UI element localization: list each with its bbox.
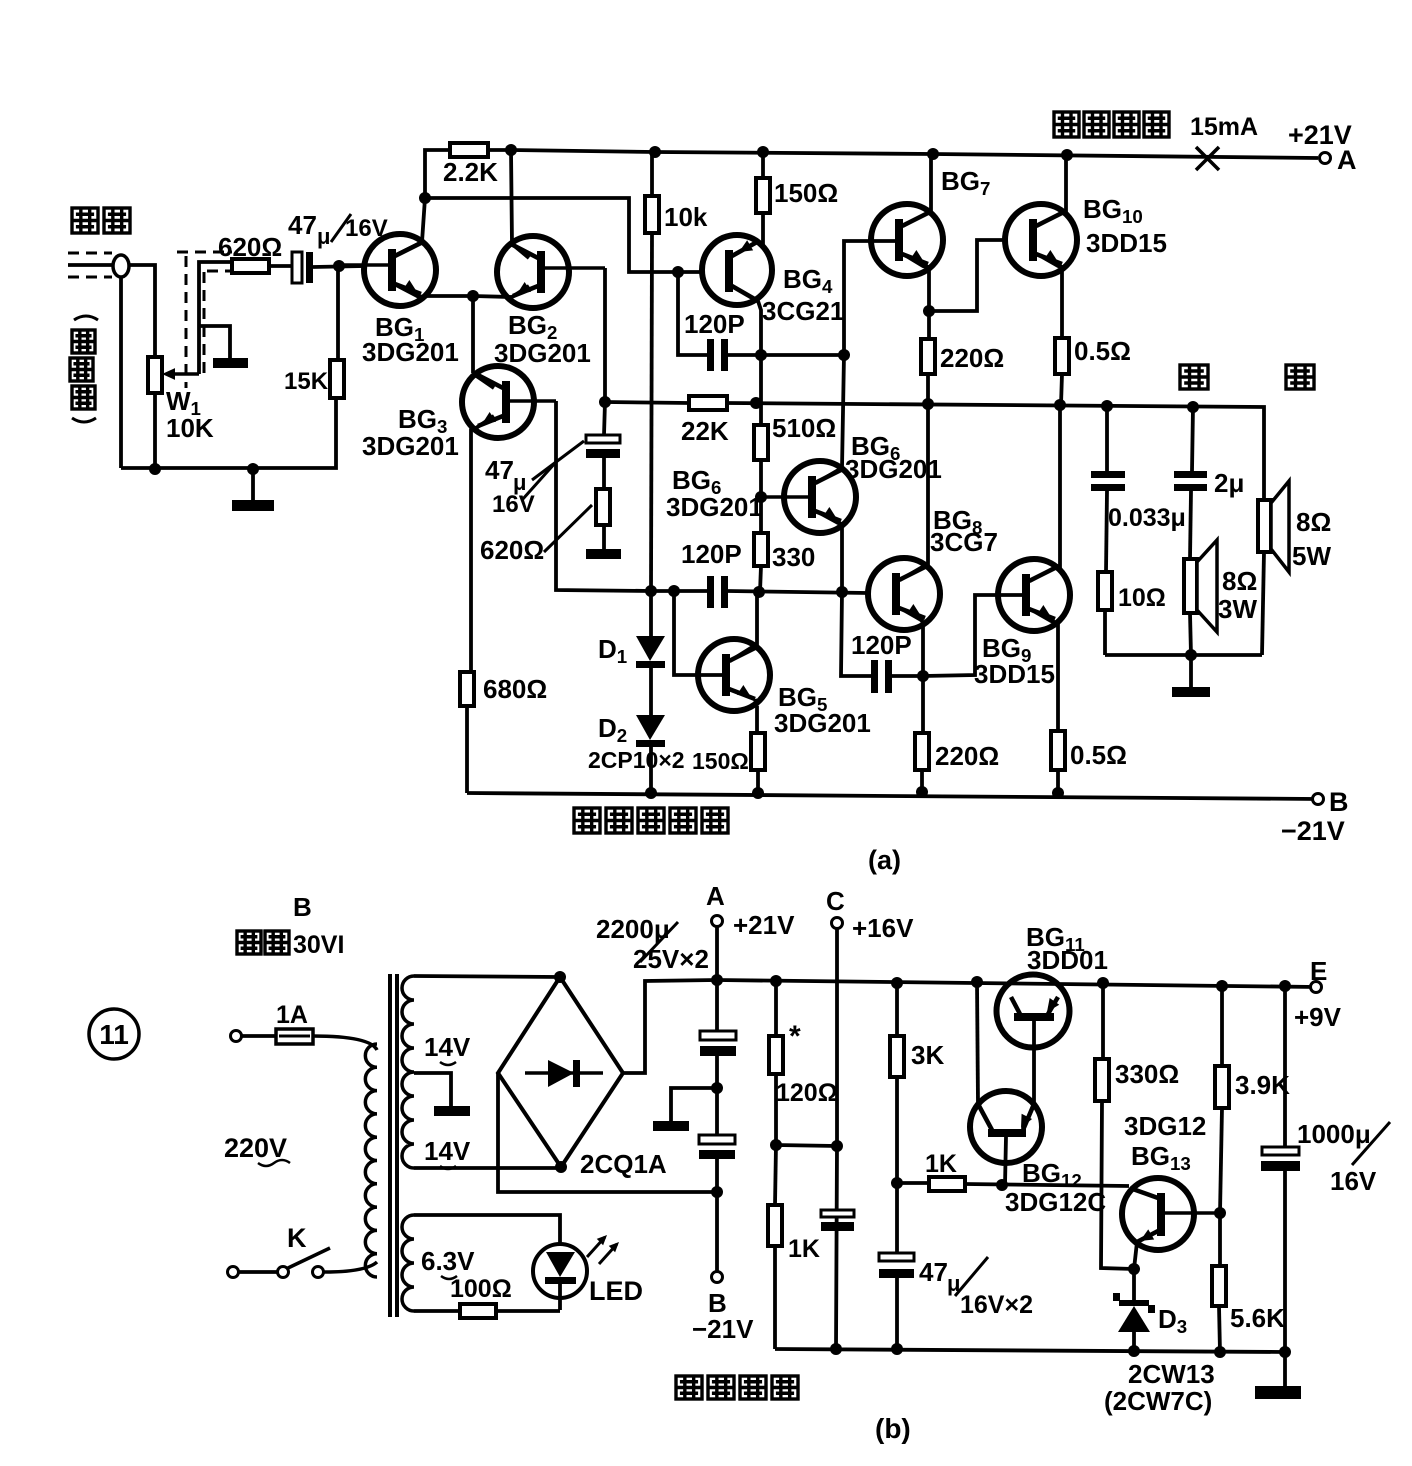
resistor 15K (336, 266, 340, 360)
transistor BG4 3CG21 (PNP) (702, 235, 772, 305)
svg-text:8Ω: 8Ω (1296, 507, 1331, 537)
resistor 330 (759, 460, 763, 533)
diode D2 2CP10 (649, 668, 653, 715)
transformer core (388, 974, 392, 1317)
BG10 collector to +21V rail (1037, 155, 1066, 226)
label 静电电流 15mA (1054, 112, 1079, 137)
BG6 collector wire (to BG7 base node) (816, 355, 844, 483)
svg-text:330Ω: 330Ω (1115, 1059, 1179, 1089)
svg-text:16V×2: 16V×2 (960, 1291, 1033, 1319)
svg-text:−21V: −21V (692, 1314, 754, 1344)
potentiometer W1 (148, 357, 162, 393)
C line down (836, 929, 837, 1349)
speaker bottom wire (1262, 552, 1264, 655)
resistor 150 ohm (BG4 emitter) (761, 152, 765, 178)
svg-text:16V: 16V (1330, 1166, 1377, 1196)
svg-text:30VI: 30VI (293, 931, 344, 959)
svg-text:3DG12C: 3DG12C (1005, 1187, 1106, 1217)
transistor BG2 3DG201 (497, 236, 569, 308)
svg-text:1A: 1A (276, 1001, 308, 1029)
svg-text:150Ω: 150Ω (692, 748, 749, 774)
svg-text:25V×2: 25V×2 (633, 944, 709, 974)
svg-text:14V: 14V (424, 1136, 471, 1166)
wire to lower 120P (841, 592, 871, 676)
label 稳压电源 (676, 1376, 702, 1399)
resistor 10k (650, 152, 654, 196)
bottom wire of input stage (121, 398, 336, 468)
svg-text:22K: 22K (681, 416, 729, 446)
svg-text:15mA: 15mA (1190, 113, 1258, 141)
transistor BG1 3DG201 (364, 234, 436, 306)
fuse 1A (231, 1031, 242, 1042)
terminal A +21V (1320, 153, 1331, 164)
svg-text:E: E (1310, 956, 1327, 986)
svg-text:(2CW7C): (2CW7C) (1104, 1386, 1212, 1416)
speaker 8ohm 5W (1258, 500, 1271, 552)
resistor 680 ohm (460, 672, 474, 706)
capacitor 47u/16V (bias) (586, 435, 620, 443)
svg-text:A: A (706, 881, 725, 911)
+21V regulator rail (717, 980, 1316, 987)
zener diode D3 2CW13 (1132, 1269, 1136, 1300)
svg-text:47: 47 (288, 210, 317, 240)
resistor 150 ohm (BG5 emitter) (755, 706, 759, 733)
terminal B -21V (supply) (715, 1192, 719, 1271)
transistor BG6 3DG201 (784, 461, 856, 533)
svg-text:10k: 10k (664, 202, 708, 232)
ground (supply) (671, 1088, 717, 1121)
BG9 base wire (923, 595, 1023, 676)
transistor BG5 3DG201 (698, 639, 770, 711)
speaker 8ohm 3W (1184, 559, 1197, 613)
secondary center tap to ground (414, 1073, 451, 1106)
svg-text:11: 11 (99, 1019, 129, 1050)
wire BG1/BG2 emitters (425, 294, 473, 298)
svg-text:220Ω: 220Ω (935, 741, 999, 771)
diode D1 2CP10 (649, 591, 653, 636)
ground at input stage (251, 469, 255, 500)
svg-text:10K: 10K (166, 413, 214, 443)
BG7 emitter to 220 ohm (903, 254, 929, 311)
transistor BG11 3DD01 (997, 975, 1070, 1048)
ground (bias chain) (602, 525, 606, 549)
resistor 1K (left) (775, 1145, 776, 1205)
svg-text:2.2K: 2.2K (443, 157, 498, 187)
svg-text:3CG7: 3CG7 (930, 527, 998, 557)
svg-text:510Ω: 510Ω (772, 413, 836, 443)
wire emitters to BG3 collector (471, 296, 475, 373)
svg-text:8Ω: 8Ω (1222, 566, 1257, 596)
svg-text:3DD01: 3DD01 (1027, 945, 1108, 975)
svg-text:2CW13: 2CW13 (1128, 1359, 1215, 1389)
label 输入 (input) (72, 208, 98, 233)
svg-text:0.033μ: 0.033μ (1108, 504, 1186, 532)
lower bias node wire (651, 589, 707, 593)
label (总音量) vertical (74, 316, 98, 320)
terminal A +21V (supply) (715, 927, 719, 980)
svg-text:3DG12: 3DG12 (1124, 1111, 1206, 1141)
terminal E +9V (1311, 982, 1322, 993)
svg-text:μ: μ (317, 224, 330, 249)
capacitor 2200u #1 (715, 980, 719, 1031)
bridge rectifier 2CQ1A (498, 977, 623, 1167)
regulator ground rail (775, 1349, 1285, 1352)
svg-text:0.5Ω: 0.5Ω (1070, 740, 1127, 770)
svg-text:47: 47 (919, 1257, 948, 1287)
svg-text:5.6K: 5.6K (1230, 1303, 1285, 1333)
svg-text:LED: LED (589, 1276, 643, 1306)
secondary bottom wire (414, 1166, 561, 1170)
svg-text:14V: 14V (424, 1032, 471, 1062)
BG5 emitter diag wire (755, 699, 757, 706)
BG8 emitter (900, 608, 923, 676)
transformer 6.3V winding (402, 1215, 414, 1311)
transistor BG8 3CG7 (868, 558, 940, 630)
svg-text:10Ω: 10Ω (1118, 584, 1166, 612)
resistor 22K (in rail) (689, 396, 727, 410)
svg-text:3DD15: 3DD15 (1086, 228, 1167, 258)
BG6 emitter down to node (816, 511, 842, 592)
svg-text:+21V: +21V (733, 910, 795, 940)
ground (regulator) (1283, 1352, 1287, 1386)
svg-text:120Ω: 120Ω (776, 1079, 838, 1107)
svg-text:5W: 5W (1292, 541, 1331, 571)
wire bridge negative to -21V line (498, 1073, 717, 1192)
ground (speaker) (1189, 655, 1193, 687)
LED indicator (533, 1244, 587, 1298)
capacitor 1000u/16V (1283, 986, 1287, 1147)
BG9 emitter to 0.5 ohm (1030, 609, 1058, 731)
svg-text:2CQ1A: 2CQ1A (580, 1149, 667, 1179)
svg-text:3K: 3K (911, 1040, 944, 1070)
svg-text:3.9K: 3.9K (1235, 1070, 1290, 1100)
svg-text:(a): (a) (868, 845, 901, 875)
resistor 3K (895, 983, 899, 1036)
BG4 collector down to 510 ohm (758, 301, 761, 425)
circled number 11 (89, 1009, 139, 1059)
transistor BG9 3DD15 (998, 559, 1070, 631)
svg-text:120P: 120P (851, 630, 912, 660)
svg-text:3DG201: 3DG201 (666, 492, 763, 522)
svg-text:3W: 3W (1218, 594, 1257, 624)
resistor 3.9K (1220, 986, 1224, 1066)
svg-text:330: 330 (772, 542, 815, 572)
svg-text:C: C (826, 886, 845, 916)
wire bridge positive to +21V node (623, 980, 717, 1073)
resistor 330 ohm (regulator) (1101, 983, 1105, 1059)
BG8 collector to rail (900, 404, 928, 580)
wire W1 bottom (153, 393, 157, 469)
transistor BG3 3DG201 (462, 366, 534, 438)
cable shield ground (199, 326, 230, 358)
+21V supply rail (511, 150, 1318, 158)
svg-text:1K: 1K (788, 1235, 820, 1263)
svg-text:+21V: +21V (1288, 120, 1352, 150)
wire BG7 base (844, 241, 895, 355)
svg-text:620Ω: 620Ω (480, 535, 544, 565)
svg-text:100Ω: 100Ω (450, 1275, 512, 1303)
svg-text:3DD15: 3DD15 (974, 659, 1055, 689)
label 功率放大器 (574, 808, 600, 833)
transistor BG13 3DG12 (1122, 1178, 1194, 1250)
mid output rail (605, 402, 689, 403)
wire 10k down to BG8 base node (651, 233, 652, 591)
svg-text:3CG21: 3CG21 (762, 296, 844, 326)
input jack J (68, 252, 112, 255)
svg-text:220V: 220V (224, 1133, 287, 1163)
resistor 100 ohm (414, 1309, 460, 1313)
terminal B -21V (1313, 794, 1324, 805)
transistor BG7 (871, 204, 943, 276)
wire BG1 collector to BG4 base (425, 198, 704, 272)
svg-text:150Ω: 150Ω (774, 178, 838, 208)
capacitor on C line (821, 1210, 854, 1217)
svg-text:680Ω: 680Ω (483, 674, 547, 704)
wire BG7 emitter to BG10 base (929, 240, 1006, 311)
secondary top wire (414, 976, 560, 977)
svg-text:2200μ: 2200μ (596, 914, 670, 944)
svg-text:3DG201: 3DG201 (494, 338, 591, 368)
svg-text:+16V: +16V (852, 913, 914, 943)
BG7 collector to +21V rail (903, 154, 931, 226)
resistor 510 ohm (BG4 load) (754, 425, 768, 460)
svg-text:120P: 120P (681, 539, 742, 569)
BG9 collector to rail (1030, 405, 1060, 581)
BG5 collector to node (730, 592, 757, 661)
svg-text:(b): (b) (875, 1413, 911, 1444)
capacitor 0.033u (1105, 406, 1109, 471)
svg-text:3DG201: 3DG201 (362, 431, 459, 461)
transformer secondary 14V+14V winding (402, 976, 414, 1168)
resistor 2.2K (425, 150, 450, 198)
svg-text:−21V: −21V (1281, 816, 1345, 846)
svg-text:B: B (293, 892, 312, 922)
svg-text:15K: 15K (284, 368, 329, 395)
svg-text:K: K (287, 1223, 307, 1253)
capacitor 2u (1192, 407, 1193, 471)
svg-text:3DG201: 3DG201 (774, 708, 871, 738)
LED light arrows (587, 1237, 605, 1257)
svg-text:2μ: 2μ (1214, 468, 1244, 498)
-21V bottom rail (467, 793, 1318, 799)
resistor 0.5 ohm (lower) (1051, 731, 1065, 770)
capacitor 47u/16Vx2 (895, 1183, 899, 1253)
wire BG3 base to lower node (556, 401, 651, 591)
resistor 220 ohm (upper) (927, 311, 931, 339)
svg-text:6.3V: 6.3V (421, 1246, 475, 1276)
capacitor 2200u #2 (715, 1088, 719, 1135)
svg-text:1K: 1K (925, 1150, 957, 1178)
BG10 emitter to 0.5 ohm (1037, 254, 1062, 338)
current-break X mark 15mA (1196, 147, 1219, 170)
6.3V top wire to LED (414, 1215, 560, 1244)
svg-text:2CP10×2: 2CP10×2 (588, 747, 685, 773)
W1 wiper arrow (168, 372, 199, 376)
wire BG2 base to bias chain (604, 268, 605, 435)
speaker network labels 高 / 锡 (1180, 365, 1208, 389)
resistor 620 ohm (bias) (602, 458, 606, 489)
wire jack to W1 top (129, 265, 155, 357)
resistor 120 ohm * (774, 981, 778, 1036)
resistor 0.5 ohm (upper) (1055, 338, 1069, 374)
svg-text:*: * (789, 1020, 801, 1053)
svg-text:1000μ: 1000μ (1297, 1119, 1371, 1149)
resistor 10 ohm (1098, 572, 1112, 610)
svg-text:0.5Ω: 0.5Ω (1074, 336, 1131, 366)
svg-text:120P: 120P (684, 309, 745, 339)
wire jack sleeve down (119, 277, 123, 468)
transistor BG10 3DD15 (1005, 204, 1077, 276)
terminal C +16V (832, 918, 843, 929)
cable shield dashes (185, 256, 188, 388)
svg-text:+9V: +9V (1294, 1002, 1342, 1032)
transistor BG12 3DG12C (970, 1091, 1042, 1163)
svg-text:16V: 16V (492, 491, 535, 518)
svg-text:220Ω: 220Ω (940, 343, 1004, 373)
transformer primary winding (365, 1044, 377, 1277)
svg-text:3DG201: 3DG201 (362, 337, 459, 367)
resistor 220 ohm (lower) (921, 676, 925, 733)
shielded cable conductor (199, 262, 232, 374)
switch K (228, 1267, 239, 1278)
svg-text:47: 47 (485, 455, 514, 485)
svg-text:B: B (1329, 787, 1349, 817)
resistor 5.6K (1218, 1213, 1222, 1266)
